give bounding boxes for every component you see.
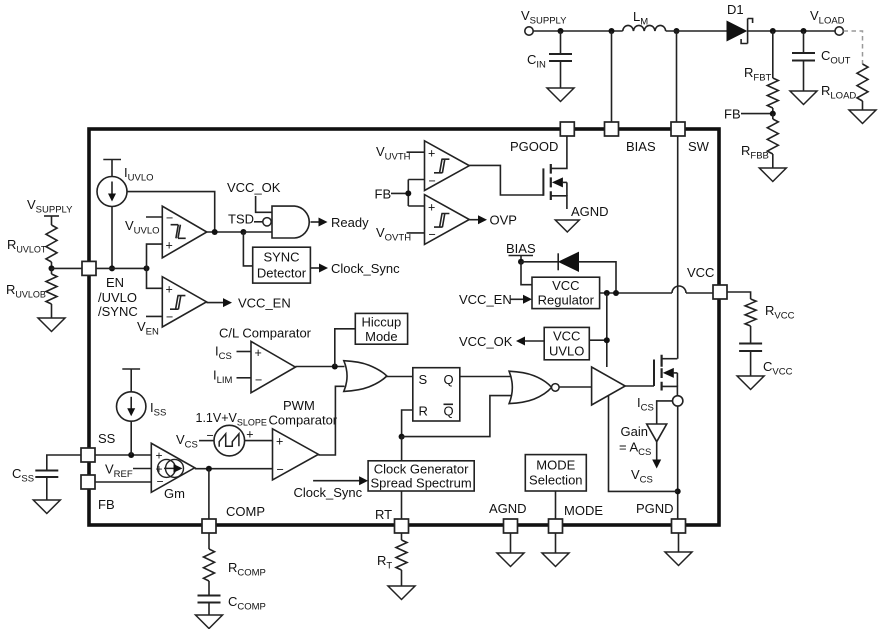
svg-text:VCC: VCC [687, 265, 714, 280]
svg-text:Selection: Selection [529, 473, 582, 488]
current source ISS [117, 369, 167, 421]
svg-text:+: + [246, 428, 253, 442]
resistor RT external [377, 533, 407, 586]
wire VCC_OK elbow [256, 196, 272, 212]
node current sense [637, 395, 683, 414]
wire COMP pin feed [208, 469, 210, 519]
svg-text:R: R [419, 404, 428, 419]
svg-text:−: − [207, 429, 214, 443]
wire UVLO plus input [147, 244, 163, 268]
junction PGND net [675, 488, 681, 494]
wire EN plus input [147, 268, 163, 288]
svg-text:+: + [166, 239, 173, 253]
resistor RVCC [745, 299, 794, 344]
IC block boundary [89, 129, 719, 525]
wire clock gen to node [401, 437, 403, 461]
pin RT [375, 507, 409, 533]
capacitor CIN [527, 31, 572, 88]
svg-text:VCC_OK: VCC_OK [459, 334, 513, 349]
svg-text:PGOOD: PGOOD [510, 139, 558, 154]
current source IUVLO [97, 160, 154, 207]
wire clock to NOR low input [402, 396, 513, 437]
svg-text:Clock_Sync: Clock_Sync [294, 485, 363, 500]
svg-text:VCC_EN: VCC_EN [459, 292, 512, 307]
comparator UVLO U1 [162, 206, 207, 258]
junction VCC net B [613, 290, 619, 296]
ground below RFBB [759, 168, 786, 182]
svg-text:MODE: MODE [564, 503, 603, 518]
svg-text:BIAS: BIAS [626, 139, 656, 154]
pin FB [81, 475, 115, 512]
transistor Q1 PGOOD pulldown [543, 136, 567, 209]
svg-text:FB: FB [375, 186, 392, 201]
pin COMP [202, 504, 265, 533]
node VSUPPLY input terminal [521, 8, 567, 35]
svg-text:Spread Spectrum: Spread Spectrum [371, 476, 472, 491]
ground below CCOMP [196, 615, 223, 629]
svg-text:Detector: Detector [257, 266, 307, 281]
resistor RFBB [741, 114, 778, 168]
ground below Q1 [555, 220, 579, 232]
ground below RT [388, 586, 415, 600]
diode D2 bias [558, 252, 578, 271]
resistor RUVLOB [6, 268, 57, 318]
wire divider to EN pin [52, 267, 83, 269]
svg-text:−: − [277, 463, 284, 477]
ground below RUVLOB [38, 318, 65, 332]
latch U8 SR [413, 368, 460, 421]
amplifier Gm error U11 [151, 443, 194, 501]
node VUVLO reference [125, 217, 162, 237]
wire BIAS to diode [521, 261, 558, 263]
junction IUVLO-EN [109, 265, 115, 271]
wire Q output to NOR [460, 376, 513, 378]
comparator OVTH U5 [425, 195, 470, 245]
node VCS pwm input [176, 429, 214, 451]
svg-text:Comparator: Comparator [269, 413, 338, 428]
pin MODE [549, 503, 604, 533]
svg-text:Gm: Gm [164, 486, 185, 501]
ground below CSS [33, 500, 60, 514]
junction hiccup tap [332, 364, 338, 370]
pin VCC [687, 265, 727, 299]
svg-text:BIAS: BIAS [506, 241, 536, 256]
svg-text:Ready: Ready [331, 215, 369, 230]
svg-text:−: − [166, 211, 173, 225]
node AGND Q1 source [571, 204, 609, 219]
wire IUVLO to comparator output [127, 192, 215, 233]
svg-text:Regulator: Regulator [538, 293, 595, 308]
wire VCS sense output [631, 442, 661, 486]
diode D1 schottky [727, 2, 753, 44]
block Hiccup Mode [355, 313, 407, 344]
wire Clock_Sync output [310, 261, 400, 276]
wire EN net internal [96, 267, 147, 269]
svg-text:Q: Q [444, 404, 454, 419]
svg-text:COMP: COMP [226, 504, 265, 519]
node FB external [724, 107, 776, 122]
OR gate U7 [344, 361, 387, 392]
svg-text:−: − [429, 228, 436, 242]
ground below CVCC [737, 376, 764, 390]
svg-text:SYNC: SYNC [263, 250, 299, 265]
block MODE Selection [525, 455, 586, 491]
svg-text:C/L Comparator: C/L Comparator [219, 326, 312, 341]
wire IUVLO to EN net [111, 207, 113, 269]
resistor RCOMP [204, 533, 266, 581]
wire R input [402, 410, 413, 437]
svg-text:UVLO: UVLO [549, 344, 584, 359]
node VOVTH reference [376, 225, 425, 244]
node FB internal [375, 186, 409, 201]
junction EN comparators [144, 265, 150, 271]
svg-text:FB: FB [724, 107, 741, 122]
comparator UVTH U4 [425, 141, 470, 191]
resistor RUVLOT [7, 225, 57, 268]
node TSD input [228, 212, 271, 227]
wire dashed to RLOAD [844, 31, 863, 64]
svg-text:Q: Q [444, 372, 454, 387]
node Clock_Sync input [294, 476, 369, 500]
wire BIAS pin to rail [611, 31, 613, 122]
wire driver return rail [609, 396, 678, 491]
ground below RLOAD [849, 110, 876, 124]
wire AND gate low input [243, 231, 272, 233]
pin PGOOD [510, 122, 574, 154]
svg-text:TSD: TSD [228, 212, 254, 227]
modulator slope sum [196, 411, 267, 456]
capacitor COUT [792, 31, 851, 91]
node VEN reference [137, 316, 162, 337]
svg-text:VCC: VCC [552, 278, 579, 293]
svg-text:+: + [428, 201, 435, 215]
wire BIAS to regulator [521, 262, 532, 285]
junction EN divider [49, 265, 55, 271]
wire VCC pin to RVCC [727, 292, 751, 299]
node VLOAD output terminal [810, 8, 845, 35]
node BIAS internal [506, 241, 536, 262]
svg-text:SW: SW [688, 139, 710, 154]
wire regulator output to VCC pin [600, 292, 713, 294]
svg-text:RT: RT [375, 507, 392, 522]
node VCC_OK label top [227, 180, 281, 195]
wire inductor to D1 [666, 30, 727, 32]
svg-text:SS: SS [98, 431, 116, 446]
capacitor CCOMP [198, 581, 266, 615]
wire sense node down [677, 406, 679, 519]
ground AGND pin [497, 533, 524, 567]
svg-text:S: S [419, 372, 428, 387]
wire FB to comparator inputs [408, 180, 424, 207]
junction BIAS diode [518, 259, 524, 265]
ground PGND pin [665, 533, 692, 566]
wire slope to PWM [245, 440, 273, 442]
ground MODE pin [542, 533, 569, 567]
ground below CIN [547, 88, 574, 102]
junction FB comparators [405, 190, 411, 196]
svg-text:D1: D1 [727, 2, 744, 17]
wire NOR to driver [559, 386, 592, 388]
junction VCC UVLO [604, 337, 610, 343]
capacitor CSS [12, 455, 82, 500]
svg-text:/UVLO: /UVLO [98, 290, 137, 305]
junction UVLO comp output [207, 229, 244, 235]
pin SS [81, 431, 116, 462]
wire sense to gain amp [657, 401, 673, 424]
wire Ready output [311, 215, 370, 230]
wire S input [387, 376, 413, 378]
wire clock gen to RT pin [401, 491, 403, 519]
node VSUPPLY left rail [27, 197, 73, 225]
junction VCC net A [604, 290, 610, 296]
svg-text:MODE: MODE [536, 458, 575, 473]
node VUVTH reference [376, 144, 425, 163]
wire OVP output [469, 213, 517, 228]
wire VSUPPLY rail to inductor [533, 30, 623, 32]
svg-text:Gain: Gain [621, 424, 648, 439]
svg-text:AGND: AGND [571, 204, 609, 219]
wire SYNC detector feed [243, 232, 252, 266]
svg-text:AGND: AGND [489, 501, 527, 516]
junction clock node [399, 434, 405, 440]
wire VCC down feed [606, 293, 608, 367]
wire VCC_EN output [207, 296, 291, 311]
wire SS net [95, 454, 151, 456]
comparator C/L current limit U6 [219, 326, 312, 393]
block SYNC Detector [253, 247, 311, 283]
node ICS input [215, 344, 251, 363]
node VCC_OK output [459, 334, 544, 349]
junction CIN [558, 28, 564, 34]
comparator EN U3 [162, 277, 206, 327]
svg-text:−: − [255, 373, 262, 387]
pin EN/UVLO/SYNC [82, 261, 138, 319]
svg-text:+: + [276, 435, 283, 449]
resistor RFBT [744, 31, 778, 114]
junction COMP node [206, 466, 212, 472]
AND gate ready U2 [272, 206, 309, 238]
inductor LM [623, 9, 666, 31]
svg-text:OVP: OVP [490, 213, 517, 228]
node ILIM input [213, 368, 251, 387]
wire diode to VCC net [579, 262, 617, 293]
svg-text:+: + [255, 346, 262, 360]
resistor RLOAD [821, 64, 868, 110]
block VCC Regulator [532, 277, 600, 308]
wire FB pin to Gm [95, 481, 151, 483]
pin SW [671, 122, 710, 154]
wire UVTH comp to PGOOD gate [469, 165, 543, 195]
wire SW pin to drain [677, 136, 679, 359]
node VCC_EN input [459, 292, 532, 307]
junction SS [128, 421, 134, 458]
junction TSD net [240, 229, 246, 235]
junction SW node [674, 28, 680, 34]
pin AGND [489, 501, 527, 533]
node VREF input [105, 462, 151, 481]
svg-text:−: − [166, 310, 173, 324]
wire hop over SW [672, 286, 686, 293]
wire D1 to VLOAD [748, 30, 835, 32]
svg-text:VCC_OK: VCC_OK [227, 180, 281, 195]
wire mode selection to pin [555, 491, 557, 519]
pin PGND [636, 501, 686, 533]
svg-text:FB: FB [98, 497, 115, 512]
svg-text:VCC: VCC [553, 329, 580, 344]
wire Gm output [195, 468, 273, 470]
svg-text:Hiccup: Hiccup [362, 315, 402, 330]
pin BIAS [605, 122, 656, 154]
svg-text:/SYNC: /SYNC [98, 304, 138, 319]
transistor Q2 power NMOS [654, 355, 677, 396]
svg-text:+: + [428, 147, 435, 161]
wire PWM output to OR [318, 386, 344, 455]
NOR gate U9 [509, 371, 559, 403]
svg-text:EN: EN [106, 275, 124, 290]
driver U10 gate buffer [592, 367, 626, 405]
junction FB divider top [770, 28, 776, 34]
wire C/L output [295, 366, 344, 368]
amplifier gain ACS [619, 424, 667, 458]
svg-text:+: + [166, 283, 173, 297]
svg-text:Mode: Mode [365, 329, 398, 344]
svg-text:PGND: PGND [636, 501, 674, 516]
comparator PWM U12 [269, 398, 338, 480]
wire VCC UVLO tap [589, 339, 607, 341]
wire driver to gate [625, 385, 654, 387]
junction COUT [801, 28, 807, 34]
junction BIAS feed [609, 28, 615, 34]
svg-text:Clock_Sync: Clock_Sync [331, 261, 400, 276]
wire SW pin to rail [676, 31, 678, 122]
block Clock Generator [368, 461, 474, 491]
svg-text:−: − [429, 174, 436, 188]
svg-text:VCC_EN: VCC_EN [238, 296, 291, 311]
svg-text:PWM: PWM [283, 398, 315, 413]
block VCC UVLO [544, 327, 589, 359]
ground below COUT [790, 91, 817, 105]
svg-text:Clock Generator: Clock Generator [374, 462, 469, 477]
capacitor CVCC [739, 344, 792, 378]
wire hiccup feed [335, 329, 356, 367]
